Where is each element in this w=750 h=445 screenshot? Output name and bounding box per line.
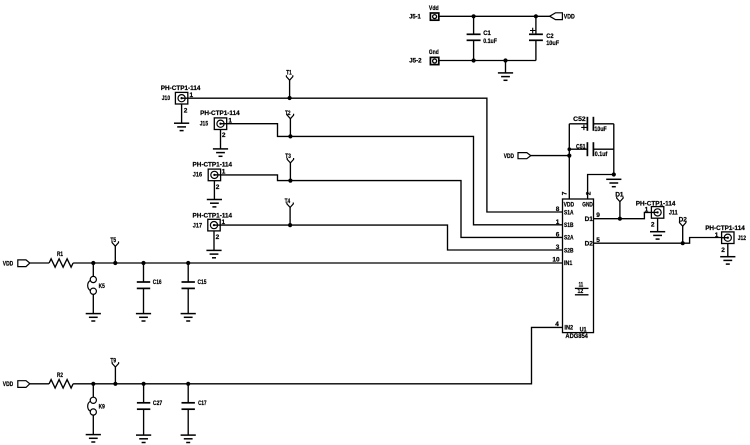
svg-text:2: 2 — [651, 222, 655, 229]
wire J17 pin1 to U1 S2B — [220, 225, 562, 250]
svg-text:S1A: S1A — [564, 209, 574, 216]
test point T4 — [285, 198, 294, 227]
svg-text:T1: T1 — [286, 69, 292, 76]
svg-text:IN1: IN1 — [564, 260, 573, 267]
svg-text:R2: R2 — [57, 372, 63, 379]
resistor R2 — [49, 372, 73, 388]
VDD flag top right — [550, 13, 575, 21]
test point D2 — [679, 217, 688, 246]
test point D1 — [615, 192, 624, 221]
wire top power rail — [439, 15, 550, 17]
svg-text:0.1uf: 0.1uf — [595, 151, 608, 158]
capacitor C1 — [467, 16, 497, 60]
svg-text:S2A: S2A — [564, 235, 574, 242]
wire J10 pin1 to U1 S1A — [188, 98, 563, 212]
svg-text:C15: C15 — [198, 279, 207, 286]
svg-text:8: 8 — [556, 206, 560, 213]
wire VDD to R2 — [30, 383, 49, 385]
ground J12 — [720, 244, 735, 265]
svg-text:D1: D1 — [585, 216, 594, 223]
test point T2 — [285, 110, 294, 138]
connector J10 — [161, 85, 201, 115]
svg-text:2: 2 — [216, 234, 220, 241]
wire bottom power rail — [439, 60, 536, 62]
svg-text:S1B: S1B — [564, 222, 574, 229]
capacitor C52 (polarized) — [569, 116, 614, 133]
svg-text:R1: R1 — [57, 251, 63, 258]
svg-text:C17: C17 — [198, 400, 207, 407]
svg-text:PH-CTP1-114: PH-CTP1-114 — [193, 162, 233, 169]
svg-text:K5: K5 — [99, 283, 105, 290]
svg-text:J5-1: J5-1 — [409, 13, 421, 20]
svg-text:0.1uF: 0.1uF — [483, 38, 497, 45]
connector J16 — [193, 162, 233, 191]
svg-text:T3: T3 — [285, 153, 291, 160]
svg-text:7: 7 — [561, 191, 568, 195]
jumper K9 — [86, 382, 105, 442]
IC U1 ADG854 — [552, 191, 600, 340]
test point T1 — [286, 69, 293, 100]
wire C5x right vertical — [613, 124, 615, 175]
svg-text:Gnd: Gnd — [429, 49, 439, 56]
svg-text:VDD: VDD — [3, 381, 14, 388]
svg-text:2: 2 — [721, 247, 725, 254]
capacitor C16 — [136, 261, 162, 321]
svg-text:2: 2 — [216, 184, 220, 191]
wire C5x left vertical to U1 VDD pin7 — [568, 124, 570, 199]
ground J10 — [174, 104, 189, 130]
capacitor C2 (polarized) — [529, 16, 559, 60]
wire J16 pin1 to U1 S2A — [221, 175, 563, 238]
svg-text:2: 2 — [586, 191, 593, 195]
svg-text:J15: J15 — [200, 120, 209, 127]
svg-text:1: 1 — [556, 219, 560, 226]
svg-text:3: 3 — [556, 244, 560, 251]
wire VDD to R1 — [30, 262, 49, 264]
VDD flag row 1 — [3, 260, 30, 268]
ground J17 — [206, 231, 221, 258]
svg-text:GND: GND — [582, 202, 593, 209]
svg-text:VDD: VDD — [3, 260, 14, 267]
wire U1 D1 pin9 to J11 — [594, 212, 652, 218]
svg-text:IN2: IN2 — [564, 325, 573, 332]
svg-text:C52: C52 — [573, 116, 586, 123]
ground J15 — [213, 130, 228, 157]
svg-text:2: 2 — [184, 107, 188, 114]
wire row1 to U1 IN1 pin10 — [73, 262, 562, 264]
svg-text:C51: C51 — [576, 143, 586, 150]
svg-text:K9: K9 — [99, 404, 105, 411]
connector J5-2 — [409, 49, 439, 64]
connector J5-1 — [409, 5, 439, 20]
svg-text:1: 1 — [645, 206, 649, 213]
test point T5 — [110, 237, 118, 265]
svg-text:2: 2 — [222, 132, 226, 139]
svg-text:C16: C16 — [153, 279, 162, 286]
svg-text:Vdd: Vdd — [429, 5, 439, 12]
svg-text:T5: T5 — [110, 237, 116, 244]
wire J15 pin1 to U1 S1B — [227, 124, 563, 225]
svg-text:PH-CTP1-114: PH-CTP1-114 — [636, 200, 676, 207]
svg-text:C1: C1 — [483, 30, 491, 37]
svg-text:J11: J11 — [669, 209, 678, 216]
svg-text:PH-CTP1-114: PH-CTP1-114 — [705, 225, 745, 232]
svg-text:10uF: 10uF — [595, 126, 607, 133]
svg-text:C27: C27 — [153, 400, 163, 407]
ground C5x — [606, 179, 621, 186]
junction dots C5x — [568, 147, 572, 151]
svg-text:VDD: VDD — [564, 202, 575, 209]
svg-text:6: 6 — [556, 232, 560, 239]
jumper K5 — [86, 261, 105, 321]
svg-text:10uF: 10uF — [546, 40, 559, 47]
svg-text:ADG854: ADG854 — [565, 333, 588, 340]
svg-text:J17: J17 — [193, 222, 203, 229]
ground J16 — [207, 181, 222, 207]
ground J11 — [650, 218, 665, 239]
svg-text:J16: J16 — [193, 172, 203, 179]
wire U1 GND pin2 up and right — [588, 175, 614, 200]
wire row2 to U1 IN2 pin4 — [73, 327, 562, 383]
capacitor C51 — [569, 142, 614, 158]
svg-text:J10: J10 — [162, 95, 171, 102]
connector J11 — [636, 200, 678, 228]
capacitor C27 — [136, 382, 163, 443]
svg-text:J12: J12 — [738, 235, 747, 242]
svg-text:T9: T9 — [110, 358, 116, 365]
svg-text:PH-CTP1-114: PH-CTP1-114 — [200, 110, 240, 117]
connector J17 — [193, 213, 233, 241]
svg-text:PH-CTP1-114: PH-CTP1-114 — [161, 85, 201, 92]
svg-text:VDD: VDD — [564, 13, 575, 20]
wire U1 D2 pin5 to J12 — [594, 238, 722, 244]
test point T9 — [110, 358, 118, 386]
svg-text:D2: D2 — [585, 241, 594, 248]
svg-text:J5-2: J5-2 — [409, 58, 422, 65]
capacitor C17 — [181, 382, 207, 443]
svg-text:S2B: S2B — [564, 247, 574, 254]
connector J15 — [200, 110, 240, 139]
capacitor C15 — [181, 261, 207, 321]
connector J12 — [705, 225, 746, 254]
resistor R1 — [49, 251, 73, 267]
svg-text:VDD: VDD — [504, 153, 514, 160]
svg-text:1: 1 — [715, 232, 719, 239]
test point T3 — [285, 153, 293, 183]
svg-text:PH-CTP1-114: PH-CTP1-114 — [193, 213, 233, 220]
junction dots top section — [472, 14, 476, 18]
ground power — [498, 61, 513, 81]
VDD flag at U1 — [504, 153, 570, 161]
VDD flag row 2 — [3, 381, 30, 389]
